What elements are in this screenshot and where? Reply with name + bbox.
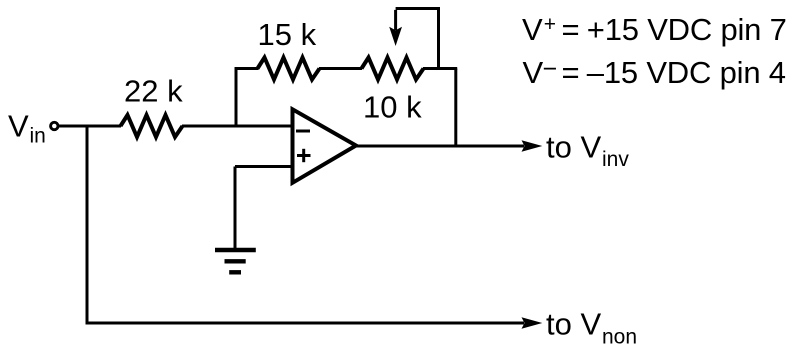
svg-text:22 k: 22 k xyxy=(124,74,183,109)
wire: feedback horizontal left segment xyxy=(235,67,259,70)
svg-text:15 k: 15 k xyxy=(258,17,317,52)
ground xyxy=(215,250,256,272)
wire: non-inverting input horizontal xyxy=(235,165,292,168)
op-amp U1 xyxy=(293,109,357,183)
svg-text:inv: inv xyxy=(602,148,629,171)
arrowhead to Vnon xyxy=(522,317,543,328)
svg-text:=: = xyxy=(562,55,580,90)
wire: feedback vertical from inverting node up xyxy=(235,67,238,126)
wire: 22k to op-amp inverting input xyxy=(182,125,292,128)
resistor R 15k xyxy=(258,58,320,80)
wiper arrow of potentiometer xyxy=(389,10,402,46)
resistor R 22k xyxy=(121,115,183,137)
svg-text:+15 VDC pin 7: +15 VDC pin 7 xyxy=(587,12,787,47)
wire: terminal to 22k resistor xyxy=(59,125,121,128)
label to Vinv xyxy=(546,130,629,172)
label to Vnon xyxy=(546,307,637,349)
wire: 10k right end to output branch corner xyxy=(423,67,457,70)
svg-text:V: V xyxy=(522,12,543,47)
svg-text:−: − xyxy=(543,55,558,83)
wire: output branch vertical down to output line xyxy=(454,69,457,147)
wire: op-amp output to Vinv xyxy=(357,145,525,148)
svg-text:+: + xyxy=(544,13,556,36)
potentiometer R 10k xyxy=(362,58,424,80)
wire: Vin junction vertical down xyxy=(86,126,89,325)
svg-text:in: in xyxy=(30,125,46,148)
supply note V- xyxy=(523,55,786,90)
supply note V+ xyxy=(522,12,787,47)
input terminal (open circle) xyxy=(51,122,58,129)
wire: bottom horizontal to Vnon xyxy=(86,322,525,325)
op-amp inverting input marker (minus) xyxy=(296,130,310,133)
svg-text:10 k: 10 k xyxy=(363,90,422,125)
op-amp non-inverting input marker (plus) xyxy=(297,149,311,162)
svg-text:V: V xyxy=(523,55,544,90)
wire: between 15k and 10k xyxy=(319,67,362,70)
svg-text:–15 VDC pin 4: –15 VDC pin 4 xyxy=(587,55,786,90)
svg-text:to V: to V xyxy=(546,130,601,165)
arrowhead to Vinv xyxy=(522,140,543,151)
svg-text:V: V xyxy=(8,109,29,144)
wire: wiper loop top and right leg xyxy=(396,9,439,69)
wire: ground branch vertical xyxy=(234,167,237,251)
svg-text:non: non xyxy=(602,326,637,349)
svg-text:to V: to V xyxy=(546,307,601,342)
svg-text:=: = xyxy=(562,12,580,47)
node Vin label xyxy=(8,109,46,148)
